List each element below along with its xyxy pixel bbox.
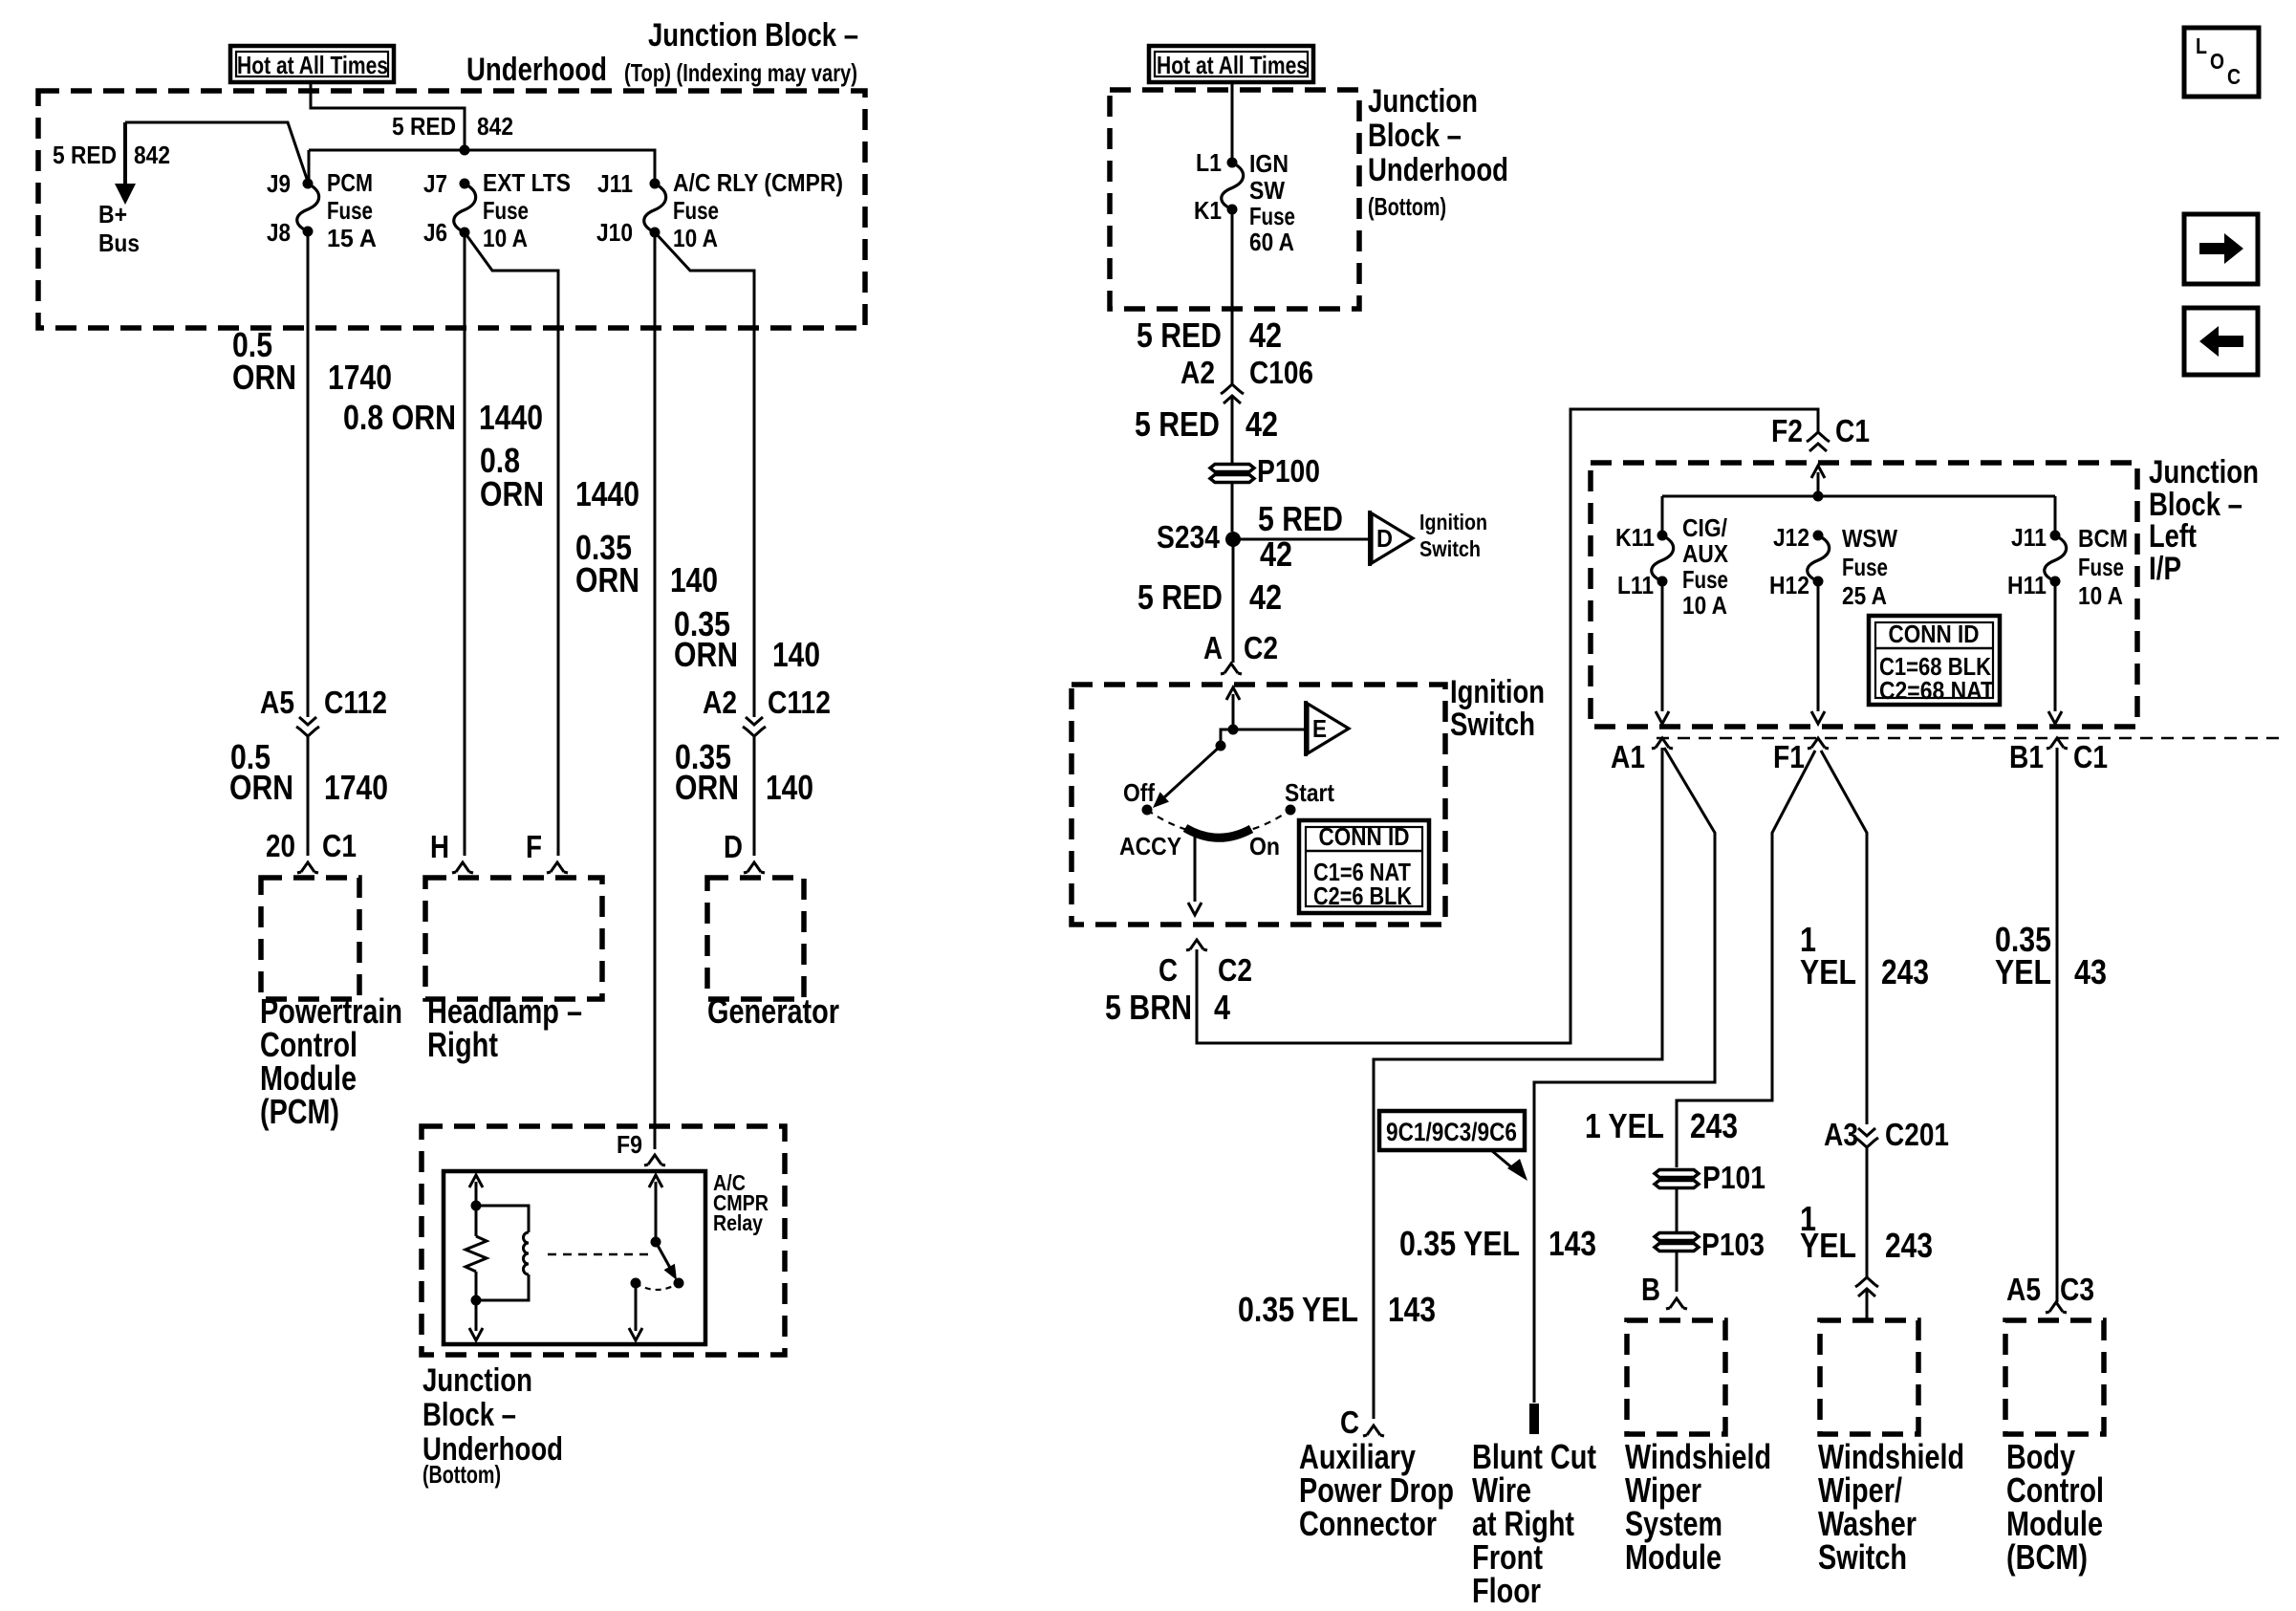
svg-text:0.35 YEL: 0.35 YEL bbox=[1399, 1224, 1520, 1263]
wire: ACCY output down to C2 bbox=[1194, 836, 1197, 902]
module: Powertrain Control Module (PCM) dashed box bbox=[261, 878, 359, 999]
svg-text:C1: C1 bbox=[2073, 739, 2108, 774]
wire: ignition switch common feed arrow bbox=[1232, 694, 1235, 729]
svg-text:H: H bbox=[430, 829, 449, 864]
connector A3 C201 (inline, down) bbox=[1858, 1128, 1875, 1136]
svg-text:Underhood: Underhood bbox=[466, 52, 607, 88]
wire: K1 down to C106, 5 RED 42 bbox=[1231, 209, 1234, 384]
svg-text:C2=6 BLK: C2=6 BLK bbox=[1313, 882, 1412, 910]
svg-text:J11: J11 bbox=[2011, 523, 2047, 552]
svg-text:Floor: Floor bbox=[1472, 1571, 1541, 1610]
svg-text:842: 842 bbox=[477, 112, 513, 141]
svg-text:Junction Block –: Junction Block – bbox=[648, 17, 858, 54]
svg-text:PCM: PCM bbox=[327, 168, 373, 197]
svg-text:1 YEL: 1 YEL bbox=[1585, 1106, 1664, 1145]
CONN ID table (ignition switch) bbox=[1299, 820, 1429, 913]
svg-text:WSW: WSW bbox=[1842, 524, 1897, 553]
svg-text:Fuse: Fuse bbox=[1249, 202, 1295, 230]
svg-text:A1: A1 bbox=[1611, 739, 1645, 774]
svg-text:J11: J11 bbox=[597, 169, 633, 198]
svg-text:Generator: Generator bbox=[707, 991, 839, 1031]
svg-text:10 A: 10 A bbox=[673, 224, 718, 252]
junction block underhood (top) dashed box bbox=[38, 91, 865, 328]
svg-text:5 RED: 5 RED bbox=[53, 141, 117, 169]
node: splice on 5 RED 842 bus bbox=[460, 145, 470, 156]
wire: P101 to P103 bbox=[1676, 1186, 1679, 1231]
module: Ignition Switch dashed box bbox=[1072, 685, 1445, 925]
svg-text:60 A: 60 A bbox=[1249, 228, 1294, 256]
svg-text:243: 243 bbox=[1885, 1226, 1933, 1265]
pass-through P101 bbox=[1655, 1170, 1699, 1178]
wire: common elbow to pivot bbox=[1221, 729, 1233, 746]
svg-text:Underhood: Underhood bbox=[1368, 152, 1508, 188]
svg-text:15 A: 15 A bbox=[327, 224, 377, 252]
svg-text:CONN ID: CONN ID bbox=[1319, 822, 1410, 851]
connector A C2 into ignition switch bbox=[1221, 664, 1242, 674]
junction block left I/P dashed box bbox=[1591, 463, 2137, 727]
svg-text:0.8 ORN: 0.8 ORN bbox=[343, 398, 456, 437]
relay coil feed arrow (left, up) bbox=[475, 1182, 478, 1206]
svg-text:Block –: Block – bbox=[1368, 118, 1462, 154]
svg-text:ORN: ORN bbox=[480, 474, 544, 513]
connector B1 C1 bbox=[2047, 738, 2068, 749]
svg-text:Connector: Connector bbox=[1299, 1504, 1437, 1543]
svg-text:A3: A3 bbox=[1824, 1117, 1858, 1152]
fuse: IGN SW Fuse 60 A, pins L1/K1 bbox=[1222, 163, 1244, 209]
svg-text:1740: 1740 bbox=[328, 358, 392, 397]
connector B at Windshield Wiper System Module bbox=[1666, 1298, 1687, 1309]
relay actuation dashed link bbox=[548, 1253, 648, 1256]
fuse: BCM Fuse 10 A, pins J11/H11 bbox=[2045, 535, 2067, 581]
CONN ID table (left I/P) bbox=[1869, 616, 2000, 705]
svg-text:C112: C112 bbox=[768, 685, 831, 720]
svg-text:A2: A2 bbox=[1180, 355, 1215, 390]
svg-text:YEL: YEL bbox=[1800, 952, 1856, 991]
svg-text:P101: P101 bbox=[1702, 1160, 1765, 1195]
connector F at Headlamp bbox=[547, 862, 568, 873]
wire: F1 to Windshield Wiper System Module, 1 YEL 243 bbox=[1677, 751, 1815, 1167]
wire: S234 down to ignition switch, 5 RED 42 bbox=[1232, 539, 1235, 663]
relay coil winding bbox=[476, 1206, 529, 1232]
svg-text:842: 842 bbox=[134, 141, 170, 169]
svg-text:C2: C2 bbox=[1244, 630, 1278, 665]
wire: Hot at All Times to IGN SW fuse bbox=[1231, 84, 1234, 163]
svg-text:J8: J8 bbox=[267, 218, 291, 247]
svg-text:1440: 1440 bbox=[575, 474, 639, 513]
wire: P100 to S234 bbox=[1231, 483, 1234, 532]
svg-text:Junction: Junction bbox=[1368, 83, 1478, 120]
svg-text:5 BRN: 5 BRN bbox=[1105, 988, 1192, 1027]
node: relay coil bottom bbox=[471, 1295, 482, 1306]
svg-text:L1: L1 bbox=[1196, 148, 1222, 177]
relay output arrow (down) bbox=[635, 1283, 638, 1331]
svg-text:C1: C1 bbox=[322, 828, 357, 863]
svg-text:B1: B1 bbox=[2009, 739, 2044, 774]
node: relay contact (output) bbox=[631, 1278, 641, 1289]
svg-text:K11: K11 bbox=[1615, 523, 1655, 552]
svg-text:K1: K1 bbox=[1194, 196, 1222, 225]
svg-text:43: 43 bbox=[2074, 952, 2107, 991]
svg-text:Switch: Switch bbox=[1419, 536, 1481, 561]
blunt cut wire end bbox=[1529, 1404, 1539, 1434]
svg-text:Fuse: Fuse bbox=[1842, 553, 1888, 581]
svg-text:Switch: Switch bbox=[1450, 707, 1535, 743]
svg-text:42: 42 bbox=[1249, 316, 1282, 355]
wire: J10 branch to Generator D, 0.35 ORN 140 bbox=[655, 232, 754, 717]
svg-text:J12: J12 bbox=[1773, 523, 1809, 552]
wire: J6 straight down to Headlamp H, 0.8 ORN 1440 bbox=[464, 232, 466, 856]
svg-text:C: C bbox=[1159, 952, 1178, 988]
svg-text:20: 20 bbox=[266, 828, 295, 863]
wire: A1 branch to blunt cut wire, 0.35 YEL 143 bbox=[1534, 748, 1715, 1403]
wire: into Windshield Wiper/Washer Switch bbox=[1866, 1289, 1869, 1320]
svg-text:ORN: ORN bbox=[232, 358, 296, 397]
power label "Hot at All Times" (left) bbox=[230, 46, 394, 82]
node: Off position bbox=[1142, 805, 1153, 816]
ignition switch moving contact arm toward Off bbox=[1164, 746, 1221, 797]
svg-text:Switch: Switch bbox=[1818, 1537, 1907, 1577]
fuse: WSW Fuse 25 A, pins J12/H12 bbox=[1808, 535, 1830, 581]
svg-text:H11: H11 bbox=[2007, 571, 2047, 599]
connector A5 C112 (inline, down) bbox=[299, 717, 316, 725]
label box 9C1/9C3/9C6 with pointer arrow bbox=[1379, 1111, 1525, 1150]
svg-text:B+: B+ bbox=[98, 200, 127, 229]
node: ignition switch common bbox=[1228, 725, 1239, 735]
svg-text:243: 243 bbox=[1881, 952, 1929, 991]
wire: 0.5 ORN 1740 below C112 bbox=[307, 736, 310, 856]
svg-text:Bus: Bus bbox=[98, 229, 140, 257]
svg-text:140: 140 bbox=[772, 635, 820, 674]
svg-text:EXT LTS: EXT LTS bbox=[483, 168, 571, 197]
connector F1 bbox=[1808, 738, 1829, 749]
svg-text:25 A: 25 A bbox=[1842, 581, 1887, 610]
svg-text:ORN: ORN bbox=[229, 768, 293, 807]
svg-text:Fuse: Fuse bbox=[2078, 553, 2124, 581]
connector (inline, up) above wiper/washer switch bbox=[1858, 1289, 1875, 1296]
connector D at Generator bbox=[744, 862, 765, 873]
LOC legend box bbox=[2184, 28, 2259, 97]
fuse: CIG/AUX Fuse 10 A, pins K11/L11 bbox=[1652, 535, 1674, 581]
connector F2 C1 (inline, up) bbox=[1809, 444, 1827, 451]
svg-text:Off: Off bbox=[1123, 778, 1155, 807]
svg-text:C201: C201 bbox=[1885, 1117, 1949, 1152]
junction block underhood (bottom) dashed box (right) bbox=[1110, 90, 1359, 309]
svg-text:5 RED: 5 RED bbox=[1137, 316, 1222, 355]
svg-text:143: 143 bbox=[1388, 1290, 1436, 1329]
svg-text:P100: P100 bbox=[1257, 453, 1320, 489]
svg-text:Hot at All Times: Hot at All Times bbox=[1157, 51, 1308, 79]
svg-text:A5: A5 bbox=[260, 685, 294, 720]
module: Generator dashed box bbox=[707, 878, 804, 999]
svg-text:ORN: ORN bbox=[675, 768, 739, 807]
connector A2 C112 (inline, down) bbox=[746, 717, 763, 725]
wire: F2 feed arrow into I/P block bbox=[1817, 472, 1820, 496]
svg-text:O: O bbox=[2210, 49, 2224, 74]
svg-text:J6: J6 bbox=[423, 218, 447, 247]
svg-text:10 A: 10 A bbox=[2078, 581, 2123, 610]
wire: H12 down through block bottom bbox=[1817, 581, 1820, 711]
module: Windshield Wiper/Washer Switch dashed box bbox=[1820, 1320, 1918, 1434]
splice S234 bbox=[1225, 532, 1241, 547]
svg-text:B: B bbox=[1641, 1272, 1660, 1307]
I/P harness connector dashed line C1 bbox=[1657, 737, 2285, 739]
connector A5 C3 at BCM bbox=[2046, 1302, 2067, 1313]
svg-text:CONN ID: CONN ID bbox=[1889, 620, 1980, 648]
svg-text:ORN: ORN bbox=[674, 635, 738, 674]
svg-text:J9: J9 bbox=[267, 169, 291, 198]
svg-text:C: C bbox=[2227, 64, 2241, 89]
svg-text:BCM: BCM bbox=[2078, 524, 2128, 553]
svg-text:F2: F2 bbox=[1771, 413, 1803, 448]
wire: J8 to PCM connector, 0.5 ORN 1740 bbox=[307, 231, 310, 717]
svg-text:SW: SW bbox=[1249, 176, 1285, 205]
node: relay contact (NO) bbox=[674, 1278, 684, 1289]
svg-text:A/C RLY (CMPR): A/C RLY (CMPR) bbox=[673, 168, 843, 197]
svg-text:42: 42 bbox=[1249, 577, 1282, 617]
svg-text:Ignition: Ignition bbox=[1419, 510, 1487, 534]
svg-text:Module: Module bbox=[1625, 1537, 1722, 1577]
svg-text:1740: 1740 bbox=[324, 768, 388, 807]
svg-text:A: A bbox=[1203, 630, 1223, 665]
svg-text:F: F bbox=[526, 829, 542, 864]
svg-text:H12: H12 bbox=[1769, 571, 1809, 599]
svg-text:J10: J10 bbox=[596, 218, 633, 247]
svg-text:C112: C112 bbox=[324, 685, 387, 720]
svg-text:Fuse: Fuse bbox=[327, 196, 373, 225]
wire: J10 straight down to relay F9, 0.35 ORN 140 bbox=[654, 232, 657, 1149]
wire: 0.35 ORN 140 below C112 bbox=[753, 736, 756, 856]
wire: Hot at All Times feed to 5 RED 842 bus bbox=[311, 84, 465, 150]
wire: I/P bus bbox=[1662, 496, 2055, 535]
module: Windshield Wiper System Module dashed box bbox=[1627, 1320, 1725, 1434]
wire: 5 RED 842 bus to J9 and J11 bbox=[309, 150, 655, 181]
svg-text:D: D bbox=[724, 829, 743, 864]
svg-text:IGN: IGN bbox=[1249, 149, 1289, 178]
pass-through P100 bbox=[1210, 465, 1254, 472]
svg-text:YEL: YEL bbox=[1800, 1226, 1856, 1265]
wire: A1 to Auxiliary Power Drop Connector, 0.35 YEL 143 bbox=[1374, 748, 1662, 1419]
svg-text:10 A: 10 A bbox=[1682, 591, 1727, 620]
svg-text:(Bottom): (Bottom) bbox=[1368, 192, 1446, 221]
wire: L11 down through block bottom bbox=[1661, 581, 1664, 711]
node: switch pivot bbox=[1216, 741, 1226, 751]
node: relay switch pivot bbox=[651, 1237, 661, 1248]
svg-text:5 RED: 5 RED bbox=[1258, 499, 1343, 538]
svg-text:L: L bbox=[2196, 33, 2207, 58]
wire: B1 to BCM, 0.35 YEL 43 bbox=[2056, 748, 2059, 1302]
power label "Hot at All Times" (right) bbox=[1149, 46, 1313, 82]
connector A1 bbox=[1652, 738, 1673, 749]
connector H at Headlamp bbox=[452, 862, 473, 873]
pointer triangle D: Ignition Switch bbox=[1368, 511, 1372, 566]
svg-text:A2: A2 bbox=[703, 685, 737, 720]
svg-text:ORN: ORN bbox=[575, 560, 639, 599]
svg-text:CIG/: CIG/ bbox=[1682, 513, 1727, 542]
svg-text:0.35 YEL: 0.35 YEL bbox=[1238, 1290, 1358, 1329]
svg-text:9C1/9C3/9C6: 9C1/9C3/9C6 bbox=[1386, 1118, 1517, 1146]
svg-text:Fuse: Fuse bbox=[673, 196, 719, 225]
relay coil return arrow (down) bbox=[475, 1300, 478, 1331]
svg-text:C2: C2 bbox=[1218, 952, 1252, 988]
wire: P103 to B connector bbox=[1676, 1252, 1679, 1292]
node: I/P bus splice bbox=[1813, 491, 1824, 502]
svg-text:Hot at All Times: Hot at All Times bbox=[237, 51, 388, 79]
fuse: A/C RLY (CMPR) Fuse 10 A, pins J11/J10 bbox=[644, 184, 666, 232]
svg-text:(PCM): (PCM) bbox=[260, 1092, 339, 1131]
wire: F1 branch to Windshield Wiper/Washer Switch, 1 YEL 243 bbox=[1821, 751, 1867, 1124]
svg-text:AUX: AUX bbox=[1682, 539, 1729, 568]
svg-text:I/P: I/P bbox=[2149, 551, 2181, 587]
svg-text:Left: Left bbox=[2149, 518, 2197, 555]
svg-text:(Top) (Indexing may vary): (Top) (Indexing may vary) bbox=[624, 58, 857, 87]
wire: branch to E bbox=[1233, 729, 1306, 731]
node: relay coil top bbox=[471, 1201, 482, 1211]
pointer triangle E bbox=[1304, 701, 1308, 756]
relay alternate-contact dashed arc bbox=[636, 1283, 679, 1290]
svg-text:F1: F1 bbox=[1773, 739, 1805, 774]
svg-text:YEL: YEL bbox=[1995, 952, 2051, 991]
svg-text:C: C bbox=[1340, 1404, 1359, 1440]
forward arrow box bbox=[2184, 214, 2258, 284]
svg-text:10 A: 10 A bbox=[483, 224, 528, 252]
svg-text:4: 4 bbox=[1214, 988, 1230, 1027]
module: Body Control Module (BCM) dashed box bbox=[2005, 1320, 2104, 1434]
svg-text:143: 143 bbox=[1549, 1224, 1596, 1263]
svg-text:C3: C3 bbox=[2060, 1272, 2094, 1307]
svg-text:C2=68 NAT: C2=68 NAT bbox=[1879, 676, 1994, 705]
svg-text:C1: C1 bbox=[1835, 413, 1870, 448]
fuse: PCM Fuse 15 A, pins J9/J8 bbox=[297, 184, 319, 231]
svg-text:On: On bbox=[1249, 832, 1280, 860]
relay switch moving contact arm bbox=[656, 1242, 670, 1268]
svg-text:Fuse: Fuse bbox=[483, 196, 529, 225]
svg-text:J7: J7 bbox=[423, 169, 447, 198]
connector 20 C1 at PCM bbox=[297, 862, 318, 873]
wire: 5 RED 42 below C106 bbox=[1231, 396, 1234, 464]
svg-text:5 RED: 5 RED bbox=[392, 112, 456, 141]
svg-text:Start: Start bbox=[1285, 778, 1334, 807]
svg-text:D: D bbox=[1376, 524, 1393, 553]
module: Headlamp - Right dashed box bbox=[425, 878, 602, 999]
svg-text:140: 140 bbox=[670, 560, 718, 599]
fuse: EXT LTS Fuse 10 A, pins J7/J6 bbox=[454, 184, 476, 232]
svg-text:Relay: Relay bbox=[713, 1210, 763, 1235]
wire: S234 branch to Ignition Switch (D), 5 RED 42 bbox=[1233, 538, 1368, 541]
relay switch common arrow (up) bbox=[655, 1182, 658, 1242]
svg-text:ACCY: ACCY bbox=[1119, 832, 1181, 860]
wire: below C201, 1 YEL 243 bbox=[1866, 1147, 1869, 1277]
svg-text:L11: L11 bbox=[1617, 571, 1654, 599]
svg-text:Junction: Junction bbox=[2149, 454, 2259, 490]
svg-text:42: 42 bbox=[1260, 534, 1292, 574]
connector C at Auxiliary Power Drop bbox=[1363, 1426, 1384, 1436]
junction block underhood (bottom) dashed box with relay bbox=[422, 1126, 785, 1355]
relay suppression resistor bbox=[475, 1206, 478, 1236]
connector C C2 below ignition switch bbox=[1186, 940, 1207, 950]
switch position dashed arc Off-ACCY-On-Start bbox=[1147, 810, 1290, 835]
svg-text:Fuse: Fuse bbox=[1682, 565, 1728, 594]
B+ Bus arrow bbox=[123, 122, 127, 185]
svg-text:5 RED: 5 RED bbox=[1137, 577, 1223, 617]
node: Start position bbox=[1286, 805, 1296, 816]
svg-text:140: 140 bbox=[766, 768, 813, 807]
wire: 5 BRN 4 from C to F2, long run bbox=[1197, 409, 1818, 1043]
svg-text:E: E bbox=[1312, 714, 1327, 743]
svg-text:Junction: Junction bbox=[422, 1362, 532, 1399]
svg-text:243: 243 bbox=[1690, 1106, 1738, 1145]
svg-text:P103: P103 bbox=[1701, 1227, 1765, 1262]
wire: J6 branch to Headlamp F bbox=[465, 232, 558, 856]
pass-through P103 bbox=[1655, 1233, 1699, 1241]
svg-text:42: 42 bbox=[1245, 404, 1278, 444]
svg-text:(BCM): (BCM) bbox=[2006, 1537, 2088, 1577]
wire: B+ Bus feed to J9 bbox=[125, 122, 308, 182]
back arrow box bbox=[2184, 308, 2258, 375]
svg-text:C106: C106 bbox=[1249, 355, 1313, 390]
svg-text:S234: S234 bbox=[1157, 519, 1221, 555]
relay box: A/C CMPR Relay bbox=[444, 1171, 705, 1344]
switch wiper thick arc ACCY-On bbox=[1185, 828, 1251, 838]
svg-text:1440: 1440 bbox=[479, 398, 543, 437]
connector A2 C106 (inline, up) bbox=[1224, 396, 1241, 403]
svg-text:Ignition: Ignition bbox=[1450, 674, 1545, 710]
svg-text:Block –: Block – bbox=[422, 1397, 516, 1433]
svg-text:Right: Right bbox=[427, 1025, 498, 1064]
svg-text:(Bottom): (Bottom) bbox=[422, 1460, 501, 1489]
svg-text:5 RED: 5 RED bbox=[1135, 404, 1220, 444]
wire: H11 down through block bottom bbox=[2054, 581, 2057, 711]
svg-text:A5: A5 bbox=[2006, 1272, 2041, 1307]
svg-text:F9: F9 bbox=[617, 1130, 642, 1159]
